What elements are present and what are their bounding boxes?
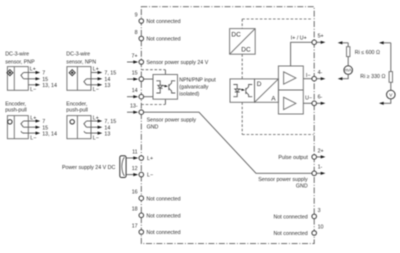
terminal 17 bbox=[139, 230, 144, 235]
wire stub opto box to isolation dashes bbox=[164, 70, 166, 105]
svg-text:Not connected: Not connected bbox=[146, 19, 180, 25]
wire I- to terminal 4- bbox=[303, 78, 311, 80]
terminal 7+ sensor supply, incoming arrow bbox=[127, 61, 134, 63]
terminal 15 input, incoming arrow bbox=[127, 78, 134, 80]
terminal 16 bbox=[139, 196, 144, 201]
terminal 13- sensor GND, incoming arrow bbox=[127, 111, 134, 113]
svg-text:8: 8 bbox=[135, 30, 138, 36]
wire L+ to terminal 11 bbox=[126, 157, 133, 159]
sensor S1 proximity diamond symbol bbox=[7, 70, 13, 76]
opto-isolator U2 LED bbox=[233, 85, 239, 97]
voltmeter V bbox=[387, 90, 396, 99]
svg-text:7+: 7+ bbox=[132, 53, 138, 59]
sensor S2 box (DC-3-wire NPN) bbox=[67, 67, 91, 91]
encoder E1 third cable wire hook to 13,14 bbox=[21, 131, 24, 133]
galvanic isolation dashed boundary (input opto section) bbox=[141, 70, 165, 105]
svg-text:13: 13 bbox=[104, 83, 110, 89]
svg-text:Not connected: Not connected bbox=[146, 213, 180, 219]
svg-text:13-: 13- bbox=[130, 104, 138, 110]
wire sensor GND 13- to 1- bbox=[144, 112, 312, 173]
D/A converter block bbox=[255, 79, 279, 102]
svg-text:NPN/PNP input: NPN/PNP input bbox=[179, 78, 216, 84]
ammeter mA bbox=[344, 66, 353, 75]
svg-text:11: 11 bbox=[132, 149, 138, 155]
svg-text:L−: L− bbox=[93, 87, 99, 93]
svg-text:Sensor power supply: Sensor power supply bbox=[147, 117, 197, 123]
amplifier A1 triangle bbox=[284, 72, 296, 84]
terminal 8 bbox=[139, 36, 144, 41]
wire terminal 14 to opto input bbox=[144, 96, 153, 98]
galvanic isolation dashed boundary (output section) bbox=[242, 19, 313, 135]
svg-text:7, 15: 7, 15 bbox=[104, 119, 116, 125]
svg-text:Ri ≤ 600 Ω: Ri ≤ 600 Ω bbox=[355, 50, 380, 56]
opto-isolator U2 phototransistor bbox=[246, 85, 252, 97]
svg-text:L+: L+ bbox=[93, 116, 99, 122]
wire E1 signal to terminal 15 bbox=[24, 126, 36, 128]
wire S1 signal to terminal 15 bbox=[24, 78, 36, 80]
sensor S1 box (DC-3-wire PNP) bbox=[7, 67, 28, 91]
svg-text:18: 18 bbox=[132, 207, 138, 213]
encoder E2 third cable wire hook to 13 bbox=[84, 131, 87, 133]
svg-text:I−: I− bbox=[306, 73, 311, 79]
wire S2 L- to terminal 13 bbox=[87, 84, 99, 86]
svg-text:L−: L− bbox=[93, 135, 99, 141]
svg-text:7: 7 bbox=[42, 119, 45, 125]
svg-text:L−: L− bbox=[30, 135, 36, 141]
sensor S1 cable fork joining wires 7 and 15 bbox=[21, 73, 24, 79]
svg-text:13, 14: 13, 14 bbox=[42, 131, 57, 137]
svg-text:Sensor power supply: Sensor power supply bbox=[258, 177, 308, 183]
wire amplifier output to terminal 5+ bbox=[291, 42, 312, 66]
svg-text:16: 16 bbox=[132, 190, 138, 196]
amplifier A2 triangle bbox=[284, 97, 296, 109]
svg-text:L+: L+ bbox=[30, 116, 36, 122]
terminal 4- output, outgoing arrow bbox=[312, 76, 317, 81]
wire E2 signal to terminal 14 bbox=[87, 126, 99, 128]
encoder E1 cable fork joining wires 7 and 15 bbox=[21, 121, 24, 127]
svg-text:L+: L+ bbox=[147, 156, 153, 162]
svg-text:Not connected: Not connected bbox=[146, 230, 180, 236]
svg-text:Sensor power supply 24 V: Sensor power supply 24 V bbox=[146, 60, 208, 66]
terminal 6- output, outgoing arrow bbox=[312, 101, 317, 106]
sensor S2 cable fork joining wires 14 and 13 bbox=[84, 79, 87, 85]
svg-text:Not connected: Not connected bbox=[274, 215, 308, 221]
terminal 14 input, incoming arrow bbox=[127, 96, 134, 98]
svg-text:4-: 4- bbox=[318, 70, 323, 76]
svg-text:7: 7 bbox=[42, 71, 45, 77]
svg-text:13, 14: 13, 14 bbox=[42, 83, 57, 89]
svg-text:6-: 6- bbox=[318, 95, 323, 101]
terminal 1- sensor GND, outgoing arrow bbox=[312, 171, 317, 176]
svg-text:9: 9 bbox=[135, 12, 138, 18]
terminal 5+ output, outgoing arrow bbox=[312, 40, 317, 45]
svg-text:push-pull: push-pull bbox=[66, 108, 88, 114]
DC/DC converter block bbox=[230, 29, 256, 55]
svg-text:13: 13 bbox=[104, 131, 110, 137]
opto-isolator U2 light arrow bbox=[240, 88, 243, 91]
svg-text:12: 12 bbox=[132, 166, 138, 172]
opto-isolator U1 phototransistor bbox=[169, 81, 175, 93]
svg-text:mA: mA bbox=[345, 68, 353, 73]
svg-text:A: A bbox=[271, 96, 276, 103]
voltage load arrow to 6- bbox=[379, 102, 384, 105]
svg-text:GND: GND bbox=[296, 184, 308, 190]
opto-isolator U1 LED bbox=[156, 81, 175, 93]
wire E2 L- to terminal 13 bbox=[86, 132, 98, 134]
svg-text:L+: L+ bbox=[30, 67, 36, 73]
svg-text:1-: 1- bbox=[318, 165, 323, 171]
terminal 11 L+, incoming arrow drawn above bbox=[139, 156, 144, 161]
svg-text:17: 17 bbox=[132, 223, 138, 229]
terminal 18 bbox=[139, 213, 144, 218]
svg-text:Ri ≥ 330 Ω: Ri ≥ 330 Ω bbox=[360, 74, 385, 80]
encoder E2 box (push-pull) bbox=[67, 116, 91, 139]
encoder E2 cable fork joining wires 7,15 and 14 bbox=[84, 121, 87, 127]
svg-text:I+ / U+: I+ / U+ bbox=[291, 36, 307, 42]
wire U- to terminal 6- bbox=[303, 102, 311, 104]
svg-text:Not connected: Not connected bbox=[146, 196, 180, 202]
voltage load: arrow to 5+ bbox=[379, 41, 384, 44]
resistor RL current loop bbox=[347, 43, 349, 47]
svg-text:Not connected: Not connected bbox=[274, 231, 308, 237]
terminal 12 L- bbox=[139, 172, 144, 177]
svg-text:U−: U− bbox=[305, 96, 312, 102]
encoder E2 shaft symbol bbox=[70, 120, 74, 124]
svg-text:L+: L+ bbox=[93, 67, 99, 73]
svg-text:DC: DC bbox=[231, 31, 241, 38]
wire terminal 15 to opto input bbox=[144, 78, 153, 80]
svg-text:10: 10 bbox=[318, 224, 324, 230]
device enclosure dash-dot border bbox=[141, 7, 314, 244]
svg-text:(galvanically: (galvanically bbox=[179, 85, 208, 91]
wire L- to terminal 12 bbox=[126, 174, 133, 176]
power supply cable symbol bbox=[120, 156, 126, 178]
svg-text:sensor, PNP: sensor, PNP bbox=[5, 59, 35, 65]
svg-text:Not connected: Not connected bbox=[146, 37, 180, 43]
wire S2 L+ to terminals 7,15 bbox=[91, 72, 98, 74]
svg-text:GND: GND bbox=[147, 125, 159, 131]
svg-text:15: 15 bbox=[132, 71, 138, 77]
sensor S2 proximity diamond symbol bbox=[69, 70, 75, 76]
svg-text:Power supply 24 V DC: Power supply 24 V DC bbox=[62, 165, 115, 171]
svg-text:7, 15: 7, 15 bbox=[104, 71, 116, 77]
svg-text:L−: L− bbox=[147, 173, 153, 179]
terminal 3 bbox=[312, 214, 317, 219]
svg-text:5+: 5+ bbox=[318, 34, 324, 40]
terminal 2+ pulse output, outgoing arrow bbox=[312, 155, 317, 160]
svg-text:push-pull: push-pull bbox=[5, 108, 27, 114]
svg-text:2+: 2+ bbox=[318, 148, 324, 154]
wire S1 L+ to terminal 7 bbox=[24, 72, 36, 74]
svg-text:Pulse output: Pulse output bbox=[278, 155, 308, 161]
svg-text:DC: DC bbox=[241, 47, 251, 54]
wire E2 L+ to terminals 7,15 bbox=[87, 120, 99, 122]
encoder E1 box (push-pull) bbox=[7, 116, 28, 139]
opto-isolator U1 light arrow bbox=[163, 85, 166, 88]
svg-text:3: 3 bbox=[318, 208, 321, 214]
wire E1 L+ to terminal 7 bbox=[24, 120, 36, 122]
svg-text:sensor, NPN: sensor, NPN bbox=[66, 59, 96, 65]
svg-text:14: 14 bbox=[132, 88, 138, 94]
terminal 9 bbox=[139, 19, 144, 24]
wire S1 L- to terminals 13,14 bbox=[28, 84, 36, 86]
svg-text:DC-3-wire: DC-3-wire bbox=[5, 52, 29, 58]
output amplifier A1 box bbox=[278, 66, 303, 114]
resistor Ri voltage load bbox=[389, 72, 392, 83]
svg-text:isolated): isolated) bbox=[179, 92, 199, 98]
wire S2 signal to terminal 14 bbox=[87, 78, 99, 80]
opto-isolator U2 box bbox=[230, 79, 255, 102]
current loop load: arrow to 5+ bbox=[338, 41, 343, 44]
encoder E1 shaft symbol bbox=[8, 120, 12, 124]
svg-text:Encoder,: Encoder, bbox=[5, 101, 26, 107]
svg-text:D: D bbox=[257, 81, 262, 88]
svg-text:Encoder,: Encoder, bbox=[66, 101, 87, 107]
svg-text:L−: L− bbox=[30, 87, 36, 93]
terminal 10 bbox=[312, 231, 317, 236]
current loop arrow to 4- bbox=[338, 77, 343, 80]
wire E1 L- to terminals 13,14 bbox=[23, 132, 36, 134]
opto-isolator U1 input box bbox=[153, 75, 178, 100]
svg-text:DC-3-wire: DC-3-wire bbox=[66, 52, 90, 58]
